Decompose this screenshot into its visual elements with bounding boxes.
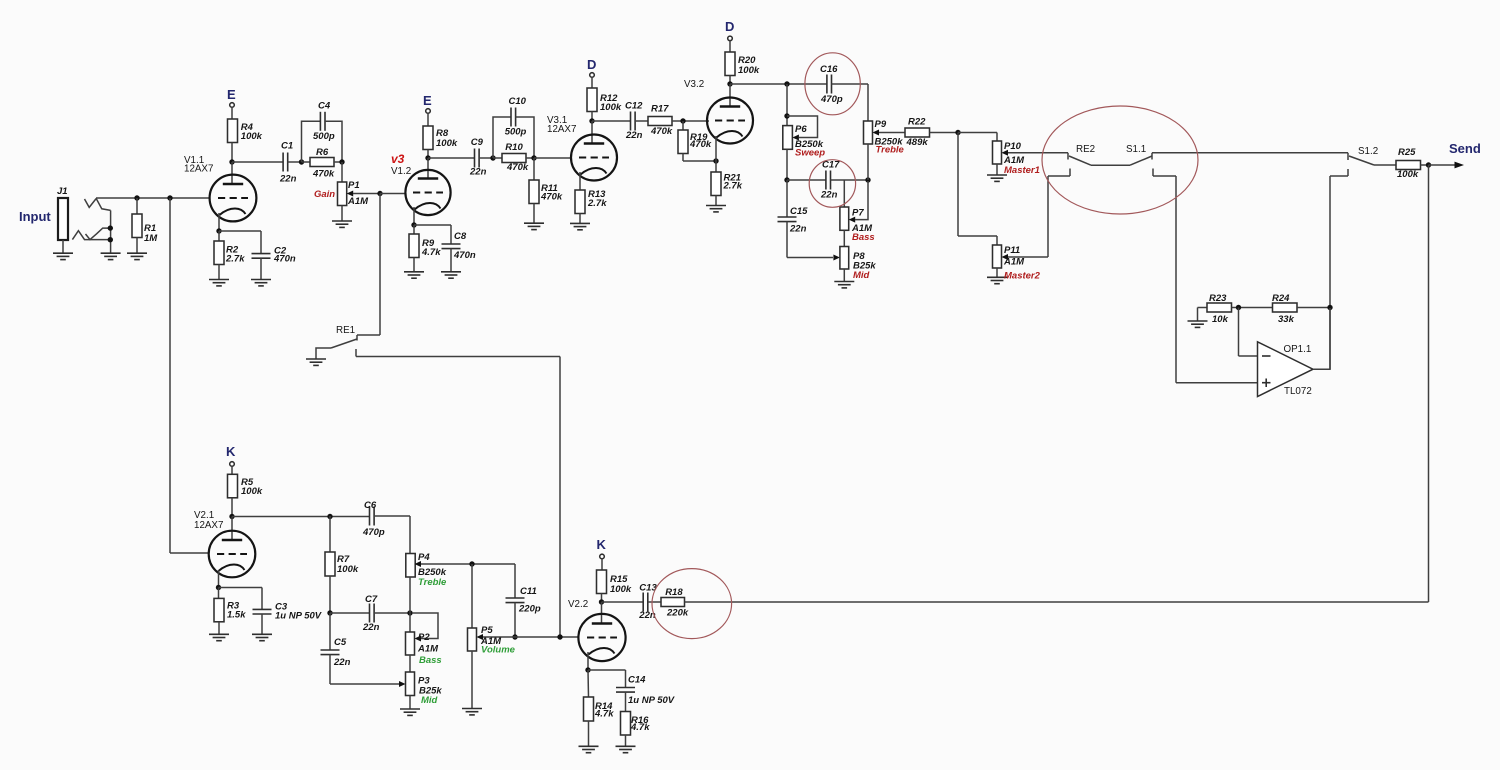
svg-text:470k: 470k (312, 169, 335, 180)
svg-text:470k: 470k (650, 126, 673, 137)
svg-text:Volume: Volume (481, 645, 516, 656)
svg-text:1.5k: 1.5k (227, 610, 246, 621)
svg-text:Treble: Treble (876, 145, 905, 156)
svg-text:C15: C15 (790, 206, 808, 217)
svg-text:R24: R24 (1272, 293, 1290, 304)
svg-text:K: K (597, 537, 607, 552)
svg-text:C4: C4 (318, 101, 331, 112)
svg-text:C6: C6 (364, 500, 377, 511)
svg-text:1u NP 50V: 1u NP 50V (275, 611, 322, 622)
svg-text:4.7k: 4.7k (630, 722, 650, 733)
svg-text:K: K (226, 444, 236, 459)
svg-text:1M: 1M (144, 233, 158, 244)
svg-text:2.7k: 2.7k (587, 198, 607, 209)
svg-text:C9: C9 (471, 137, 484, 148)
svg-text:Sweep: Sweep (795, 148, 825, 159)
svg-text:22n: 22n (625, 130, 643, 141)
svg-text:C10: C10 (509, 96, 527, 107)
svg-text:Bass: Bass (852, 232, 875, 243)
svg-text:489k: 489k (906, 137, 929, 148)
svg-text:Bass: Bass (419, 655, 442, 666)
svg-text:R10: R10 (505, 142, 523, 153)
svg-text:A1M: A1M (347, 196, 369, 207)
svg-text:P11: P11 (1004, 245, 1020, 256)
svg-text:470k: 470k (689, 139, 712, 150)
svg-text:E: E (227, 87, 236, 102)
svg-text:P5: P5 (481, 625, 493, 636)
svg-text:TL072: TL072 (1284, 386, 1312, 397)
svg-text:470k: 470k (540, 192, 563, 203)
svg-text:100k: 100k (337, 564, 359, 575)
svg-text:470n: 470n (273, 254, 296, 265)
svg-text:22n: 22n (333, 657, 351, 668)
svg-text:Mid: Mid (421, 695, 438, 706)
svg-text:P6: P6 (795, 124, 807, 135)
svg-text:P7: P7 (852, 208, 864, 219)
svg-text:RE2: RE2 (1076, 144, 1095, 155)
svg-text:C5: C5 (334, 637, 347, 648)
svg-text:V1.2: V1.2 (391, 166, 411, 177)
svg-text:Input: Input (19, 209, 51, 224)
svg-text:E: E (423, 93, 432, 108)
svg-text:R25: R25 (1398, 147, 1416, 158)
svg-text:C7: C7 (365, 594, 378, 605)
svg-text:100k: 100k (610, 584, 632, 595)
svg-text:500p: 500p (313, 131, 335, 142)
svg-text:C16: C16 (820, 64, 838, 75)
svg-text:J1: J1 (57, 186, 68, 197)
svg-text:12AX7: 12AX7 (184, 164, 213, 175)
svg-text:P9: P9 (875, 119, 887, 130)
svg-text:P10: P10 (1004, 141, 1022, 152)
svg-text:Master1: Master1 (1004, 165, 1040, 176)
svg-text:1u NP 50V: 1u NP 50V (628, 695, 675, 706)
svg-text:470p: 470p (820, 94, 843, 105)
svg-text:470p: 470p (362, 527, 385, 538)
svg-text:100k: 100k (738, 65, 760, 76)
svg-text:R6: R6 (316, 147, 329, 158)
svg-text:470k: 470k (506, 162, 529, 173)
svg-text:R22: R22 (908, 117, 926, 128)
svg-text:v3: v3 (391, 152, 405, 166)
svg-text:C11: C11 (520, 586, 537, 597)
svg-text:33k: 33k (1278, 314, 1295, 325)
svg-text:2.7k: 2.7k (225, 254, 245, 265)
svg-text:R18: R18 (665, 587, 683, 598)
svg-text:RE1: RE1 (336, 325, 355, 336)
svg-text:D: D (725, 19, 734, 34)
svg-text:100k: 100k (241, 486, 263, 497)
svg-text:Treble: Treble (418, 577, 447, 588)
svg-text:D: D (587, 57, 596, 72)
svg-text:Mid: Mid (853, 270, 870, 281)
svg-text:100k: 100k (600, 102, 622, 113)
svg-text:V3.2: V3.2 (684, 79, 704, 90)
svg-text:P1: P1 (348, 180, 360, 191)
svg-text:C8: C8 (454, 231, 467, 242)
svg-text:S1.2: S1.2 (1358, 146, 1378, 157)
svg-text:V2.2: V2.2 (568, 599, 588, 610)
svg-text:100k: 100k (436, 138, 458, 149)
svg-text:C12: C12 (625, 101, 643, 112)
svg-text:500p: 500p (505, 127, 527, 138)
svg-text:A1M: A1M (1003, 257, 1025, 268)
svg-text:4.7k: 4.7k (421, 247, 441, 258)
svg-text:220k: 220k (666, 608, 689, 619)
svg-text:Gain: Gain (314, 189, 335, 200)
svg-text:10k: 10k (1212, 314, 1229, 325)
svg-text:C14: C14 (628, 674, 646, 685)
svg-text:100k: 100k (241, 131, 263, 142)
svg-text:22n: 22n (469, 167, 487, 178)
svg-text:P2: P2 (418, 632, 430, 643)
svg-text:Send: Send (1449, 141, 1481, 156)
svg-text:A1M: A1M (417, 644, 439, 655)
svg-text:220p: 220p (518, 604, 541, 615)
svg-text:22n: 22n (362, 622, 380, 633)
svg-text:12AX7: 12AX7 (547, 124, 576, 135)
svg-text:4.7k: 4.7k (594, 709, 614, 720)
svg-text:470n: 470n (453, 250, 476, 261)
svg-text:OP1.1: OP1.1 (1284, 344, 1312, 355)
svg-text:S1.1: S1.1 (1126, 144, 1146, 155)
svg-text:22n: 22n (789, 224, 807, 235)
svg-text:R17: R17 (651, 104, 669, 115)
svg-text:R23: R23 (1209, 293, 1227, 304)
svg-text:C1: C1 (281, 141, 293, 152)
svg-text:22n: 22n (279, 174, 297, 185)
svg-text:12AX7: 12AX7 (194, 520, 223, 531)
svg-text:P4: P4 (418, 552, 430, 563)
svg-text:2.7k: 2.7k (723, 181, 743, 192)
svg-text:100k: 100k (1397, 169, 1419, 180)
svg-text:Master2: Master2 (1004, 271, 1041, 282)
svg-text:22n: 22n (820, 190, 838, 201)
